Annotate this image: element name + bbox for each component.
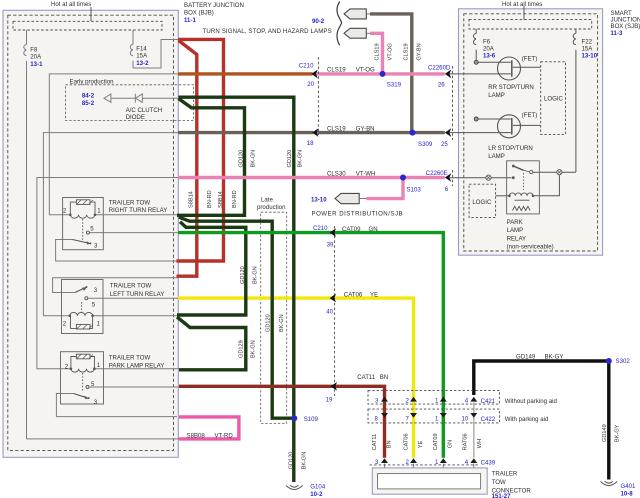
svg-text:CLS30: CLS30 [327, 171, 346, 178]
left turn relay switch [75, 289, 83, 293]
wire left turn relay coil pin1 to green [93, 315, 178, 317]
pink S8B08 VT-RD loop [179, 417, 239, 439]
C2260E dashed connector line [452, 170, 454, 186]
BJB fuse bus dashed box [13, 21, 162, 30]
svg-text:13-2: 13-2 [136, 60, 149, 67]
ground G401 [601, 481, 618, 485]
svg-text:YE: YE [370, 291, 378, 298]
svg-text:25: 25 [441, 141, 448, 148]
svg-text:VT-OG: VT-OG [356, 67, 375, 74]
svg-text:19: 19 [326, 396, 333, 403]
svg-text:BK-GY: BK-GY [615, 424, 621, 442]
svg-text:11-1: 11-1 [184, 17, 196, 24]
C210 arrow on orange wire [311, 70, 317, 79]
svg-text:CAT06: CAT06 [404, 433, 410, 450]
splice S103 [400, 175, 406, 181]
pink CLS19 VT-OG wire from C210 to C2260D [317, 33, 445, 74]
trailer tow right turn relay box [63, 198, 104, 250]
dark green ground wire G-a to S109 and G104 [179, 97, 294, 482]
svg-text:Without parking aid: Without parking aid [505, 398, 557, 405]
maroon CAT11 BN wire [179, 386, 385, 458]
left turn relay pin5 terminal [85, 297, 88, 300]
svg-text:Hot at all times: Hot at all times [51, 1, 91, 8]
svg-text:Late: Late [261, 197, 273, 204]
svg-text:S8B08: S8B08 [187, 432, 206, 439]
svg-text:C2260E: C2260E [426, 170, 448, 177]
RR FET transistor [498, 57, 521, 80]
svg-text:C439: C439 [481, 460, 496, 467]
svg-text:GD120: GD120 [287, 150, 293, 168]
svg-text:TURN SIGNAL, STOP, AND HAZARD: TURN SIGNAL, STOP, AND HAZARD LAMPS [203, 28, 332, 35]
svg-text:GD120: GD120 [240, 266, 246, 284]
yellow CAT06 YE wire [178, 298, 414, 458]
battery junction box outer border [3, 10, 178, 457]
late production dashed box [261, 212, 287, 423]
svg-text:20A: 20A [30, 53, 42, 60]
C2260D arrow pin 26 [445, 70, 451, 79]
splice S319 [380, 71, 386, 77]
svg-text:VT-WH: VT-WH [356, 171, 376, 178]
SJB relay coil [509, 193, 533, 211]
svg-text:BK-GY: BK-GY [545, 354, 564, 361]
power distribution bullet connector [335, 193, 359, 203]
svg-text:DIODE: DIODE [126, 114, 145, 121]
svg-text:Early production: Early production [70, 79, 114, 86]
C210 lower dashed connector line [334, 226, 336, 396]
F6 junction dot LR [474, 117, 478, 121]
svg-text:GN: GN [447, 440, 453, 448]
A/C clutch diode symbol [135, 94, 142, 103]
svg-text:GD120: GD120 [289, 452, 295, 470]
svg-text:13-1: 13-1 [30, 61, 43, 68]
wire orange route to right turn relay coil pin 2 [49, 74, 178, 215]
svg-text:BK-GN: BK-GN [302, 452, 308, 470]
svg-text:5: 5 [92, 302, 96, 309]
wire red A feed to right turn relay pivot [56, 240, 178, 262]
svg-text:GD149: GD149 [516, 354, 536, 361]
turn signal lamp connector bullet 1 [344, 9, 366, 19]
svg-text:4: 4 [465, 459, 469, 466]
svg-text:CAT06: CAT06 [344, 291, 363, 298]
svg-text:TRAILER TOW: TRAILER TOW [109, 355, 151, 362]
svg-text:1: 1 [97, 362, 101, 369]
taupe CLS19 GY-BN wire C210 to C2260D [317, 14, 445, 133]
svg-text:BN: BN [380, 374, 388, 381]
svg-text:GD120: GD120 [239, 150, 245, 168]
splice S302 [606, 358, 612, 364]
C422 dashed row box [368, 409, 499, 423]
A/C clutch diode line [111, 97, 178, 99]
svg-text:G104: G104 [310, 484, 326, 491]
RR FET source wire from C2260D [449, 73, 511, 75]
svg-text:CLS19: CLS19 [375, 43, 381, 60]
LR FET drain wire [476, 118, 511, 120]
svg-text:3: 3 [94, 287, 98, 294]
trailer tow park lamp relay box [61, 352, 104, 404]
svg-text:6: 6 [445, 186, 449, 193]
svg-text:RIGHT TURN RELAY: RIGHT TURN RELAY [109, 207, 168, 214]
svg-text:S302: S302 [616, 358, 631, 365]
svg-text:C422: C422 [481, 416, 496, 423]
LR FET source wire from C2260D [449, 132, 511, 134]
svg-text:CAT11: CAT11 [357, 374, 376, 381]
left turn relay coil and resistor [70, 302, 93, 329]
C210 upper dashed connector line [317, 57, 319, 135]
svg-text:With parking aid: With parking aid [505, 416, 549, 423]
svg-text:RR STOP/TURN: RR STOP/TURN [488, 84, 534, 91]
wire C2260E to park relay [449, 177, 512, 179]
white RAT06 WH wire [473, 403, 475, 458]
svg-text:13-10: 13-10 [582, 53, 598, 60]
svg-text:3: 3 [94, 399, 98, 406]
wire red B feed to left turn relay pivot [53, 278, 178, 293]
C421 pin chevrons [381, 397, 477, 402]
svg-text:GN: GN [369, 226, 378, 233]
right turn relay pin5 terminal [86, 231, 89, 234]
svg-text:TRAILER TOW: TRAILER TOW [109, 200, 151, 207]
wire right turn relay pin5 to CAT09 green [89, 232, 178, 234]
svg-text:5: 5 [90, 226, 94, 233]
svg-text:40: 40 [326, 308, 333, 315]
smart junction box outer border [459, 9, 603, 255]
svg-text:S103: S103 [407, 187, 422, 194]
svg-text:BN-RD: BN-RD [232, 190, 238, 208]
svg-text:PARK: PARK [507, 219, 523, 226]
svg-text:BK-GN: BK-GN [279, 314, 285, 332]
svg-text:production: production [257, 204, 285, 211]
svg-text:18: 18 [307, 140, 314, 147]
svg-text:POWER DISTRIBUTION/SJB: POWER DISTRIBUTION/SJB [312, 211, 404, 218]
wire park relay pivot to pink loop top [56, 394, 177, 417]
svg-text:GY-BN: GY-BN [356, 126, 375, 133]
gray stubs into trailer connector [385, 464, 474, 474]
RR FET gate wire to logic [513, 66, 541, 68]
trailer tow connector box [372, 468, 487, 494]
wire park relay coil pin1 to green [94, 368, 179, 370]
svg-text:BK-GN: BK-GN [251, 340, 257, 358]
svg-text:20: 20 [307, 81, 314, 88]
A/C clutch diode arrow glyph [104, 94, 111, 103]
pink CLS30 VT-WH wire [178, 178, 445, 199]
svg-text:LAMP: LAMP [488, 153, 505, 160]
svg-text:C210: C210 [299, 63, 314, 70]
wire logic2 to relay coil left [496, 195, 509, 197]
dark green ground wire G-f to left turn coil [177, 222, 246, 315]
svg-text:GD129: GD129 [239, 340, 245, 358]
svg-text:S109: S109 [304, 416, 319, 423]
wire F14 to red S8B14 feed [133, 40, 178, 69]
svg-text:TRAILER TOW: TRAILER TOW [110, 283, 152, 290]
svg-text:GY-BN: GY-BN [417, 43, 423, 60]
wire F22 to relay contact [533, 171, 576, 173]
wire F8 to pink loop bottom [27, 438, 180, 440]
early production dashed box [66, 85, 194, 121]
svg-text:S319: S319 [387, 82, 402, 89]
SJB junction circle C2260E side [486, 175, 491, 180]
logic box 1 [541, 62, 566, 135]
svg-text:BK-GN: BK-GN [251, 150, 257, 168]
svg-text:20A: 20A [483, 45, 495, 52]
logic box 2 [469, 184, 496, 217]
svg-text:TRAILER: TRAILER [492, 470, 518, 477]
smart junction box inner dashed border [464, 14, 598, 251]
red S8B14 wire A [177, 39, 224, 261]
wire junction to relay coil right [534, 175, 559, 196]
svg-text:LOGIC: LOGIC [472, 199, 492, 206]
red S8B14 wire B [177, 40, 197, 276]
svg-text:VT-RD: VT-RD [215, 432, 234, 439]
trailer tow left turn relay box [62, 280, 104, 334]
fuse F22 [573, 29, 576, 172]
svg-text:(non-serviceable): (non-serviceable) [507, 244, 554, 251]
wire pink CLS30 route to park relay coil pin 2 [37, 178, 178, 369]
svg-text:S8B14: S8B14 [218, 191, 224, 208]
RR FET drain wire [476, 61, 511, 63]
SJB relay switch [512, 165, 515, 168]
svg-text:1: 1 [97, 208, 101, 215]
svg-text:S8B14: S8B14 [189, 191, 195, 208]
bullet 2 stub [366, 32, 370, 34]
C210 arrow on taupe wire [312, 128, 318, 137]
battery junction box inner dashed border [8, 15, 174, 450]
svg-text:26: 26 [438, 82, 445, 89]
svg-text:BATTERY JUNCTION: BATTERY JUNCTION [184, 2, 244, 9]
splice S109 [291, 415, 297, 421]
svg-text:GD149: GD149 [602, 424, 608, 442]
svg-text:YE: YE [418, 440, 424, 448]
svg-text:VT-OG: VT-OG [388, 43, 394, 60]
svg-text:LAMP: LAMP [507, 227, 524, 234]
harness brace for turn signal lamps [337, 2, 342, 46]
C2260E arrow pin 6 [445, 173, 451, 182]
SJB hot at all times tick [523, 6, 525, 20]
bright green CAT09 GN wire [178, 233, 443, 458]
svg-text:2: 2 [63, 320, 67, 327]
svg-text:CLS19: CLS19 [327, 126, 346, 133]
C210 arrow on maroon wire [331, 382, 337, 391]
svg-text:C210: C210 [313, 225, 328, 232]
C422 pin chevrons [381, 413, 477, 418]
SJB fuse bus dashed box [469, 20, 592, 29]
svg-text:151-27: 151-27 [492, 493, 512, 498]
svg-text:BK-GN: BK-GN [298, 150, 304, 168]
wire right turn relay coil pin1 to green [95, 214, 178, 216]
C439 dashed row box [370, 464, 479, 466]
svg-text:15A: 15A [582, 45, 594, 52]
svg-text:Hot at all times: Hot at all times [502, 1, 542, 8]
svg-text:10: 10 [462, 416, 469, 423]
C421 dashed row box [368, 390, 499, 404]
svg-text:BN-RD: BN-RD [207, 190, 213, 208]
C439 pin chevrons [381, 458, 477, 463]
svg-text:LAMP: LAMP [488, 92, 505, 99]
svg-text:4: 4 [465, 397, 469, 404]
svg-text:13-10: 13-10 [311, 197, 327, 204]
svg-text:CLS19: CLS19 [404, 43, 410, 60]
fuse F8 [24, 30, 27, 439]
svg-text:84-2: 84-2 [82, 93, 95, 100]
wire park relay pin5 to CAT11 [89, 386, 179, 388]
svg-text:C421: C421 [481, 398, 496, 405]
svg-text:BN: BN [387, 440, 393, 448]
svg-text:11-3: 11-3 [611, 30, 623, 37]
svg-text:90-2: 90-2 [312, 18, 325, 25]
wire gray GY-BN route to left turn relay coil pin 2 [43, 133, 178, 316]
svg-text:PARK LAMP RELAY: PARK LAMP RELAY [109, 362, 165, 369]
park lamp relay coil and resistor [71, 354, 95, 391]
svg-text:CLS19: CLS19 [327, 67, 346, 74]
wire left turn relay pin5 to CAT06 yellow [88, 297, 178, 299]
right turn relay coil and resistor [70, 200, 95, 241]
svg-text:(FET): (FET) [522, 112, 538, 119]
svg-text:13-6: 13-6 [483, 53, 496, 60]
svg-text:BOX (BJB): BOX (BJB) [184, 10, 214, 17]
C210 arrow on yellow wire [330, 294, 336, 303]
ground G104 [286, 485, 303, 489]
orange CLS19 VT-OG wire [178, 72, 313, 75]
LR FET gate wire to logic [513, 124, 541, 126]
svg-text:BOX (SJB): BOX (SJB) [611, 23, 640, 30]
svg-text:15A: 15A [136, 52, 148, 59]
svg-text:CAT11: CAT11 [372, 434, 378, 451]
svg-text:LEFT TURN RELAY: LEFT TURN RELAY [110, 291, 165, 298]
svg-text:85-2: 85-2 [82, 100, 95, 107]
svg-text:A/C CLUTCH: A/C CLUTCH [126, 107, 163, 114]
F6 junction dot RR [474, 60, 478, 64]
svg-text:S309: S309 [418, 141, 433, 148]
svg-text:LOGIC: LOGIC [544, 96, 564, 103]
fuse F6 [473, 29, 476, 60]
dark green ground wire G-b to right turn coil [177, 99, 245, 216]
svg-text:CAT09: CAT09 [433, 433, 439, 450]
bullet 1 stub [366, 13, 370, 15]
svg-text:10-2: 10-2 [310, 491, 323, 498]
svg-text:GD120: GD120 [266, 314, 272, 332]
svg-text:BK-GN: BK-GN [253, 266, 259, 284]
SJB relay junction circle F22 side [557, 170, 562, 175]
svg-text:39: 39 [327, 242, 334, 249]
svg-text:RELAY: RELAY [507, 235, 527, 242]
svg-text:2: 2 [65, 364, 69, 371]
dark green ground wire G-c to S109 [179, 217, 294, 418]
C210 arrow on green wire [330, 228, 336, 237]
right turn relay switch [72, 240, 87, 243]
svg-text:CAT09: CAT09 [342, 226, 361, 233]
svg-text:RAT06: RAT06 [463, 433, 469, 450]
svg-text:10-8: 10-8 [621, 490, 634, 497]
C2260D dashed connector line [452, 66, 454, 140]
svg-text:LR STOP/TURN: LR STOP/TURN [488, 145, 533, 152]
park relay pin5 terminal [86, 386, 89, 389]
black GD149 BK-GY wire [474, 361, 609, 480]
taupe CLS19 GY-BN wire BJB to C210 [178, 131, 313, 134]
svg-text:TOW: TOW [492, 479, 506, 486]
svg-text:G401: G401 [621, 483, 637, 490]
svg-text:(FET): (FET) [522, 55, 538, 62]
BJB hot at all times tick [90, 7, 92, 21]
svg-text:WH: WH [477, 439, 483, 448]
svg-text:C2260D: C2260D [428, 64, 451, 71]
LR FET transistor [498, 115, 521, 138]
fuse F14 [130, 30, 133, 68]
splice S309 [410, 130, 416, 136]
SJB park lamp relay box [507, 161, 540, 214]
C2260D arrow pin 25 [445, 128, 451, 137]
turn signal lamp connector bullet 2 [344, 28, 366, 38]
park lamp relay switch [74, 394, 86, 398]
dark green ground wire G-e to park coil [177, 317, 246, 370]
